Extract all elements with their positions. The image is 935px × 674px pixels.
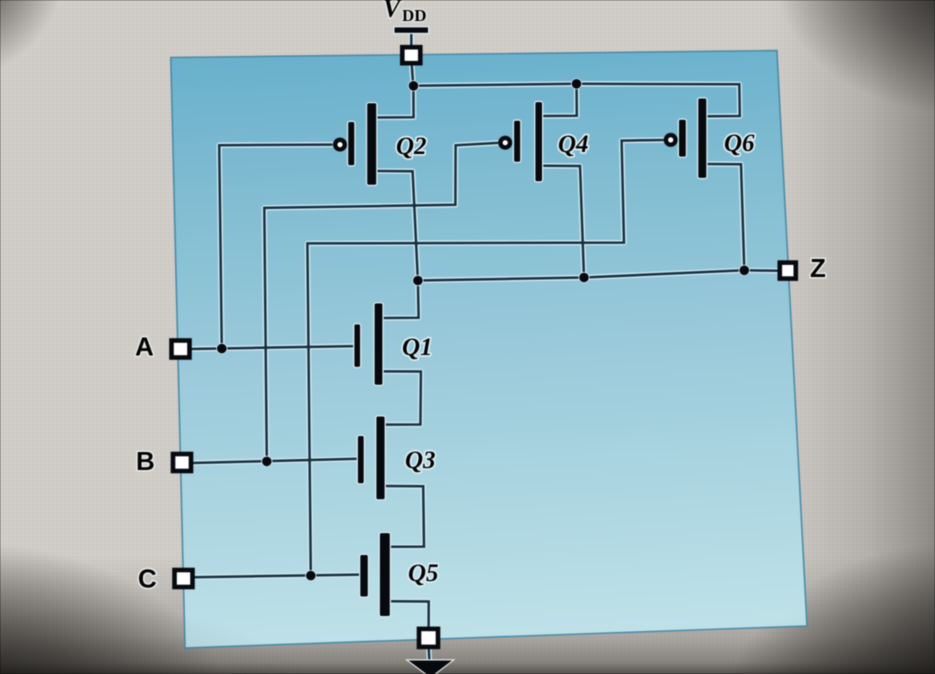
schematic canvas (light blue selection box) <box>171 51 807 648</box>
wire node C to Q6 gate <box>307 140 663 576</box>
transistor Q4 (PMOS) <box>500 102 588 181</box>
svg-text:Q6: Q6 <box>724 130 755 157</box>
wire VDD top rail <box>414 84 740 117</box>
wire Q4 drain to node OUT <box>542 166 584 278</box>
junction node OUT junction (Q4) <box>579 273 589 283</box>
transistor Q5 (NMOS) <box>360 533 438 616</box>
svg-text:A: A <box>135 332 154 362</box>
wire Q5 source to ground port <box>390 601 429 628</box>
wire input B row <box>192 459 359 463</box>
port ground <box>418 627 440 648</box>
wire node A to Q2 gate <box>219 145 333 349</box>
svg-text:Q2: Q2 <box>396 133 427 160</box>
svg-text:Q4: Q4 <box>558 131 589 158</box>
wire input A row <box>191 346 355 349</box>
wire Q2 source to VDD rail <box>376 86 413 118</box>
junction node OUT junction (Q6) <box>740 266 750 276</box>
power VDD symbol (bar) <box>395 27 429 32</box>
label input/output C <box>138 564 157 594</box>
transistor Q6 (PMOS) <box>666 99 755 178</box>
wire ground port to ground symbol <box>427 648 430 661</box>
svg-text:DD: DD <box>402 6 427 25</box>
svg-text:Z: Z <box>810 253 826 283</box>
wire output row to port Z <box>418 270 780 280</box>
svg-text:Q1: Q1 <box>402 334 433 361</box>
wire VDD stem (bar to port) <box>410 33 413 48</box>
junction node B junction <box>262 457 272 467</box>
port input C <box>173 569 194 589</box>
wire Q2 drain to node OUT <box>376 171 418 281</box>
svg-text:Q5: Q5 <box>408 560 439 587</box>
wire Q1 drain from node OUT <box>382 281 418 319</box>
wire Q1 source to Q3 drain <box>382 371 421 424</box>
junction node OUT junction (Q2/Q1) <box>413 276 423 286</box>
wire VDD port to node VDD <box>412 64 414 86</box>
wire input C row <box>193 575 360 578</box>
junction node A junction <box>217 344 227 354</box>
wire halo layer (light outline under all wires) <box>191 33 780 662</box>
ground symbol <box>409 661 453 674</box>
svg-text:C: C <box>138 564 157 594</box>
svg-text:Q3: Q3 <box>405 447 436 474</box>
wire Q4 source to VDD rail <box>542 84 577 116</box>
label input/output A <box>135 332 154 362</box>
junction node VDD junction <box>409 81 419 91</box>
label input/output B <box>136 446 155 476</box>
junction node C junction <box>306 571 316 581</box>
junction node VDD-Q4 junction <box>572 79 582 89</box>
label VDD <box>383 0 427 25</box>
transistor Q1 (NMOS) <box>354 303 432 384</box>
port input A <box>170 339 191 359</box>
transistor Q3 (NMOS) <box>358 417 436 500</box>
svg-text:V: V <box>383 0 403 23</box>
wire Q3 source to Q5 drain <box>385 486 424 547</box>
wire node B to Q4 gate <box>264 143 498 462</box>
port output Z <box>778 261 797 280</box>
port VDD <box>401 46 422 65</box>
wire Q6 source to node OUT <box>706 164 744 270</box>
svg-text:B: B <box>136 446 155 476</box>
label input/output Z <box>810 253 826 283</box>
port input B <box>172 453 193 473</box>
vignette overlay (subtle corner darkening on top, decorative) <box>0 585 935 674</box>
transistor Q2 (PMOS) <box>335 103 426 185</box>
